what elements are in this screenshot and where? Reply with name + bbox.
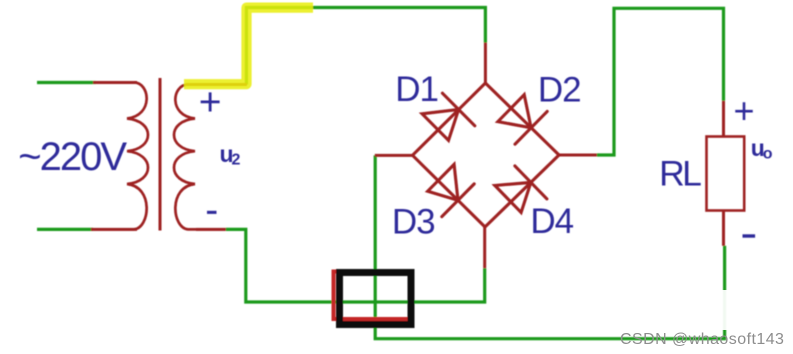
svg-text:RL: RL [659, 154, 701, 194]
svg-text:D3: D3 [392, 203, 435, 242]
svg-text:~220V: ~220V [18, 135, 127, 179]
svg-text:D4: D4 [530, 202, 573, 241]
svg-text:+: + [733, 90, 754, 131]
svg-text:D2: D2 [538, 70, 581, 109]
svg-text:o: o [763, 146, 773, 163]
svg-text:D1: D1 [395, 70, 438, 109]
svg-text:CSDN @whaosoft143: CSDN @whaosoft143 [620, 331, 784, 348]
svg-text:2: 2 [232, 152, 241, 169]
svg-text:+: + [199, 81, 222, 124]
